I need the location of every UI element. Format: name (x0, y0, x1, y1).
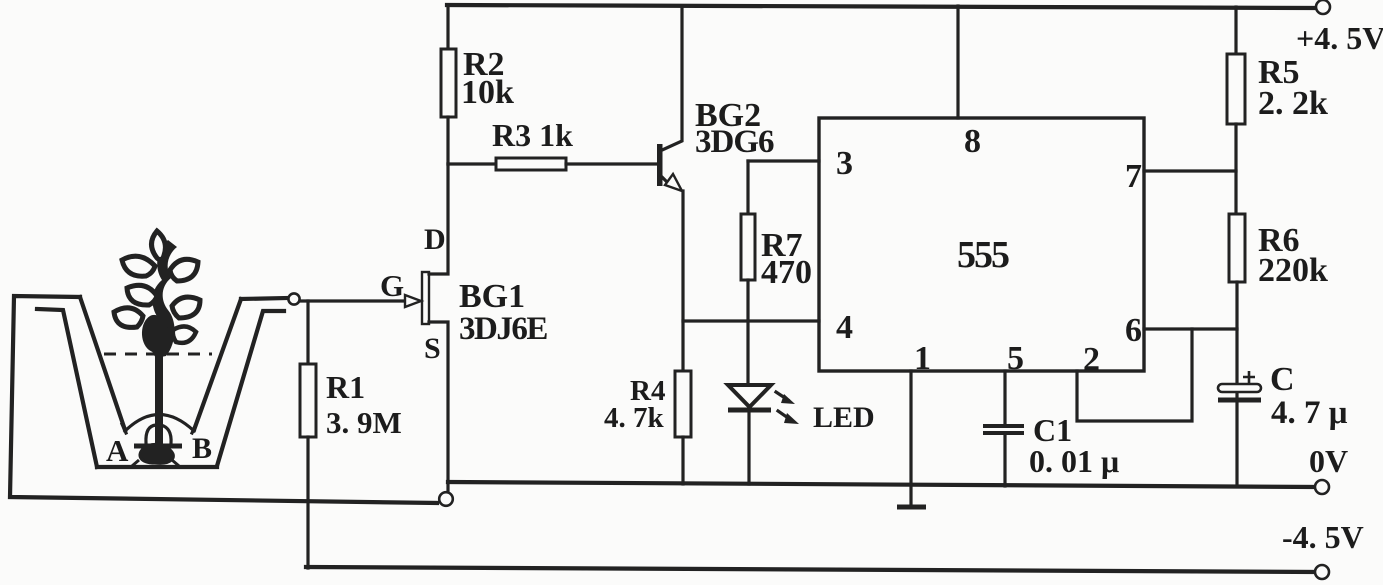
BG2 emitter arrow (665, 174, 682, 191)
leaf right3 (173, 326, 196, 342)
svg-text:220k: 220k (1258, 252, 1328, 289)
wire R4 bottom (681, 437, 684, 484)
svg-text:2: 2 (1083, 341, 1100, 378)
resistor R1 (300, 364, 316, 437)
pot right lip to terminal (241, 298, 288, 299)
wire BG2 emitter down (681, 191, 684, 371)
wire pin2 (1077, 329, 1192, 421)
wire BG1 drain jog (429, 164, 448, 274)
wire R5 to R6 (1234, 124, 1237, 214)
svg-text:0V: 0V (1309, 443, 1348, 479)
svg-text:3DJ6E: 3DJ6E (459, 311, 547, 347)
wire C1 bottom (1003, 435, 1006, 486)
svg-text:470: 470 (761, 254, 812, 291)
wire pin5 (1003, 371, 1006, 424)
svg-text:8: 8 (964, 123, 981, 160)
wire BG1 source jog (429, 322, 448, 492)
transistor BG1 channel bar (422, 272, 429, 324)
wire R7 riser (746, 161, 749, 214)
svg-text:B: B (192, 432, 212, 465)
wire R7 to LED (746, 280, 749, 385)
svg-text:A: A (106, 433, 129, 468)
resistor R4 (675, 371, 691, 437)
wire top +4.5V rail (447, 5, 1316, 8)
wire -4.5V rail (306, 567, 1316, 572)
BG1 gate arrow (405, 295, 421, 307)
pot floor (97, 465, 217, 469)
leaf upper-right (170, 259, 198, 281)
plant stem lower (155, 352, 163, 450)
capacitor C plus sign (1243, 371, 1255, 383)
wire C bottom (1235, 402, 1238, 486)
terminal pot-to-gate (288, 293, 299, 304)
leaf right2 (172, 297, 200, 318)
IC 555 box (819, 118, 1144, 371)
svg-text:LED: LED (813, 401, 875, 434)
LED light arrow 2 (778, 411, 791, 420)
wire pin1 (909, 371, 912, 507)
LED cathode bar (728, 408, 771, 413)
wire pin3 (748, 159, 819, 162)
wire 0V rail (448, 482, 1316, 487)
leaf mid-left (127, 285, 157, 305)
svg-text:R1: R1 (326, 369, 365, 405)
root blob (132, 444, 179, 466)
svg-text:G: G (380, 268, 404, 303)
LED triangle (728, 385, 771, 407)
leaf upper-left (122, 256, 155, 276)
capacitor C1 top plate (983, 424, 1024, 428)
ground tick pin1 (897, 505, 926, 510)
leaf top (152, 231, 166, 260)
svg-text:5: 5 (1007, 340, 1024, 377)
LED light arrow 1 (776, 392, 788, 400)
svg-text:1: 1 (914, 340, 931, 377)
root arc (125, 415, 194, 432)
pot inner surface left diagonal (80, 297, 125, 430)
svg-text:3DG6: 3DG6 (695, 124, 774, 160)
svg-text:S: S (424, 332, 441, 365)
resistor R3 (496, 158, 566, 170)
wire R1 to -4.5V rail (306, 437, 309, 568)
svg-text:4: 4 (836, 309, 853, 346)
svg-text:+4. 5V: +4. 5V (1296, 20, 1383, 56)
leaf far-left (114, 308, 143, 328)
wire R3 right / BG2 base (566, 162, 658, 165)
wire R2 top (446, 6, 449, 49)
svg-text:6: 6 (1125, 312, 1142, 349)
svg-text:R3 1k: R3 1k (492, 117, 573, 153)
wire R2 bottom (446, 117, 449, 164)
svg-text:10k: 10k (461, 74, 514, 111)
pot outer left wall (10, 296, 437, 503)
resistor R5 (1227, 54, 1245, 124)
wire pin8 (956, 6, 959, 118)
svg-text:0. 01 μ: 0. 01 μ (1029, 443, 1119, 479)
svg-text:555: 555 (957, 234, 1009, 276)
terminal +4.5V (1316, 0, 1330, 14)
resistor R7 (741, 214, 755, 280)
svg-text:C: C (1270, 361, 1295, 398)
pot inner lip left (37, 309, 97, 467)
svg-text:7: 7 (1125, 158, 1142, 195)
svg-text:3: 3 (836, 145, 853, 182)
terminal source/0V left (439, 492, 453, 506)
capacitor C bottom plate (1218, 398, 1261, 403)
svg-text:2. 2k: 2. 2k (1258, 85, 1328, 122)
root tick right (192, 424, 196, 433)
root tick left (122, 424, 126, 433)
transistor BG2 base bar (657, 144, 663, 186)
svg-text:4. 7 μ: 4. 7 μ (1271, 395, 1348, 431)
svg-text:4. 7k: 4. 7k (604, 402, 665, 434)
water level dashed line (104, 353, 212, 356)
wire gate (300, 299, 406, 302)
plant stem upper winding (149, 240, 177, 358)
resistor R2 (441, 49, 456, 117)
capacitor C top plate (1218, 384, 1261, 392)
wire R3 left (448, 162, 496, 165)
pot inner lip right (217, 311, 284, 466)
wire R5 top (1234, 7, 1237, 54)
terminal -4.5V (1315, 565, 1329, 579)
root electrode bar (134, 444, 182, 449)
svg-text:3. 9M: 3. 9M (326, 405, 402, 440)
wire pin4 (683, 319, 819, 322)
wire pin6 (1144, 327, 1237, 330)
BG2 emitter (661, 176, 667, 182)
plant dark blob (142, 315, 170, 353)
wire LED to rail (747, 412, 750, 484)
wire pin7 (1144, 169, 1236, 172)
terminal 0V (1315, 480, 1329, 494)
pot inner surface right diagonal (194, 299, 241, 430)
svg-text:BG1: BG1 (459, 278, 525, 315)
wire R6 bottom (1235, 282, 1238, 398)
root hook left (146, 425, 171, 443)
BG2 collector (660, 6, 682, 151)
resistor R6 (1229, 214, 1245, 282)
capacitor C1 bottom plate (983, 431, 1024, 435)
svg-text:D: D (424, 223, 446, 256)
wire R1 riser (306, 301, 309, 364)
svg-text:-4. 5V: -4. 5V (1282, 519, 1364, 555)
